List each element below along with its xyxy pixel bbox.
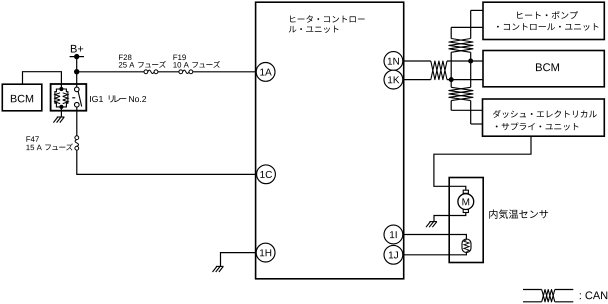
pin 1K (384, 70, 403, 89)
fuse F47 (75, 136, 79, 150)
twisted pair (1N/1K wires) (431, 61, 447, 80)
wire relay switch to fuse F47 (76, 107, 78, 136)
label F19 10 A fuse (173, 55, 220, 68)
heat pump control unit box (483, 2, 604, 39)
wire BCM to relay coil (23, 72, 62, 85)
connector box BCM (left) (2, 84, 42, 111)
motor M (aspirator) (458, 190, 474, 212)
pin 1I (384, 225, 403, 244)
CAN-H bus wire (right vertical) (470, 10, 472, 124)
wire CAN-L to dash electrical supply unit (451, 109, 482, 111)
wire CAN-H to dash electrical supply unit (471, 123, 483, 125)
pin 1C (257, 165, 276, 184)
pin 1A (256, 63, 275, 82)
legend: CAN twisted pair symbol (523, 290, 607, 302)
junction (CAN-H at right bus) (468, 59, 473, 64)
wire F28 to F19 (158, 71, 179, 73)
wire F47 to pin 1C (77, 150, 257, 174)
label IG1 relay No.2 (90, 95, 146, 102)
wire motor to ground (434, 213, 466, 222)
fuse F19 (179, 70, 193, 74)
thermistor (temperature sensing element) (462, 239, 471, 253)
node B+ (battery feed) (70, 45, 84, 59)
ground (motor) (426, 222, 437, 228)
wire F19 to pin 1A (193, 71, 256, 73)
heater control unit box (256, 2, 404, 279)
ground (relay coil) (53, 107, 64, 123)
ground (pin 1H) (213, 266, 224, 272)
twisted pair (upper bus) (449, 39, 473, 53)
fuse F28 (144, 70, 158, 74)
wire B+ down to relay switch (76, 57, 78, 88)
CAN-L bus wire (left vertical) (450, 27, 452, 110)
wire CAN-L to heat pump unit (451, 26, 483, 28)
inside air temperature sensor box (449, 178, 483, 263)
junction (B+ feed) (74, 69, 79, 74)
label F28 25 A fuse (119, 55, 166, 68)
relay K1 box (51, 84, 87, 111)
pin 1H (256, 243, 275, 262)
label F47 15 A fuse (26, 136, 73, 150)
wire B+ to fuse F28 (77, 71, 144, 73)
pin 1N (384, 52, 403, 71)
relay coil (IG1 relay No.2) (55, 84, 68, 109)
dash electrical supply unit box (483, 99, 605, 136)
label inside air temperature sensor (489, 209, 548, 218)
wire 1H to ground (221, 253, 257, 267)
wire dash unit to sensor motor (434, 136, 531, 190)
twisted pair (lower bus) (449, 87, 473, 100)
wire 1N (CAN-H) to bus (403, 60, 483, 62)
junction (CAN-L at left bus) (449, 77, 454, 82)
wire 1K (CAN-L) to bus (403, 79, 483, 81)
wire 1J to thermistor (403, 252, 467, 255)
wire CAN-H to heat pump unit (471, 9, 483, 11)
relay switch contact (72, 87, 82, 107)
wire 1I to thermistor (403, 235, 467, 240)
connector box BCM (right) (483, 51, 604, 87)
pin 1J (384, 245, 403, 264)
